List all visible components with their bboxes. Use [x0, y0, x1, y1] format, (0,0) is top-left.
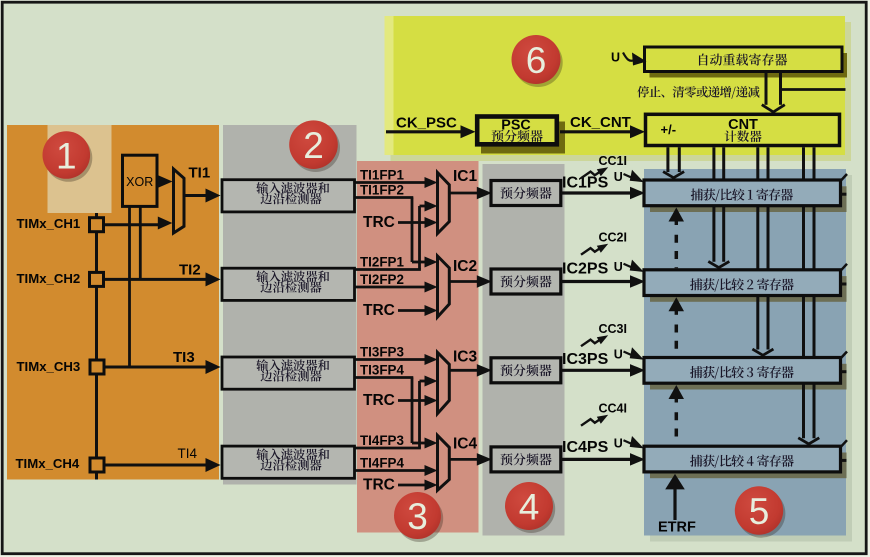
- svg-text:ETRF: ETRF: [658, 520, 696, 536]
- svg-text:TI2: TI2: [179, 262, 201, 279]
- svg-text:+/-: +/-: [661, 122, 677, 137]
- svg-text:TI3FP4: TI3FP4: [360, 363, 404, 378]
- svg-text:TRC: TRC: [363, 392, 395, 409]
- svg-text:CC1I: CC1I: [599, 154, 627, 168]
- svg-text:2: 2: [303, 125, 324, 166]
- svg-text:CC4I: CC4I: [599, 402, 627, 416]
- svg-text:TI1: TI1: [189, 165, 211, 182]
- svg-text:6: 6: [526, 40, 547, 81]
- svg-text:TI2FP1: TI2FP1: [360, 255, 404, 270]
- svg-text:U: U: [614, 436, 623, 450]
- svg-text:TI1FP1: TI1FP1: [360, 168, 404, 183]
- svg-text:U: U: [614, 260, 623, 274]
- svg-text:5: 5: [749, 491, 770, 532]
- svg-text:TI4: TI4: [178, 446, 198, 461]
- svg-text:TIMx_CH4: TIMx_CH4: [16, 456, 80, 471]
- svg-text:TI3FP3: TI3FP3: [360, 345, 404, 360]
- svg-text:4: 4: [519, 487, 540, 528]
- svg-text:TIMx_CH3: TIMx_CH3: [17, 359, 81, 374]
- svg-text:IC2PS: IC2PS: [562, 261, 609, 278]
- svg-text:IC1: IC1: [453, 168, 478, 185]
- svg-text:TI4FP4: TI4FP4: [360, 456, 404, 471]
- svg-text:TRC: TRC: [363, 302, 395, 319]
- svg-text:TI1FP2: TI1FP2: [360, 183, 404, 198]
- svg-text:TIMx_CH1: TIMx_CH1: [17, 216, 81, 231]
- svg-text:TI2FP2: TI2FP2: [360, 272, 404, 287]
- svg-text:TRC: TRC: [363, 477, 395, 494]
- svg-text:TRC: TRC: [363, 214, 395, 231]
- svg-text:IC3: IC3: [453, 349, 478, 366]
- svg-text:CC3I: CC3I: [599, 322, 627, 336]
- svg-text:TI4FP3: TI4FP3: [360, 433, 404, 448]
- svg-text:CK_CNT: CK_CNT: [570, 114, 631, 131]
- svg-text:TIMx_CH2: TIMx_CH2: [17, 271, 81, 286]
- svg-text:IC4: IC4: [453, 436, 478, 453]
- svg-text:1: 1: [56, 136, 77, 177]
- svg-text:CK_PSC: CK_PSC: [396, 115, 457, 132]
- svg-text:IC2: IC2: [453, 258, 477, 275]
- svg-text:U: U: [614, 348, 623, 362]
- svg-text:IC1PS: IC1PS: [562, 175, 609, 192]
- svg-text:IC4PS: IC4PS: [562, 439, 609, 456]
- svg-text:U: U: [611, 51, 620, 65]
- svg-text:TI3: TI3: [173, 349, 195, 366]
- svg-text:CC2I: CC2I: [599, 231, 627, 245]
- svg-text:U: U: [614, 170, 623, 184]
- svg-text:IC3PS: IC3PS: [562, 351, 609, 368]
- svg-text:3: 3: [407, 496, 428, 537]
- svg-text:XOR: XOR: [126, 175, 153, 189]
